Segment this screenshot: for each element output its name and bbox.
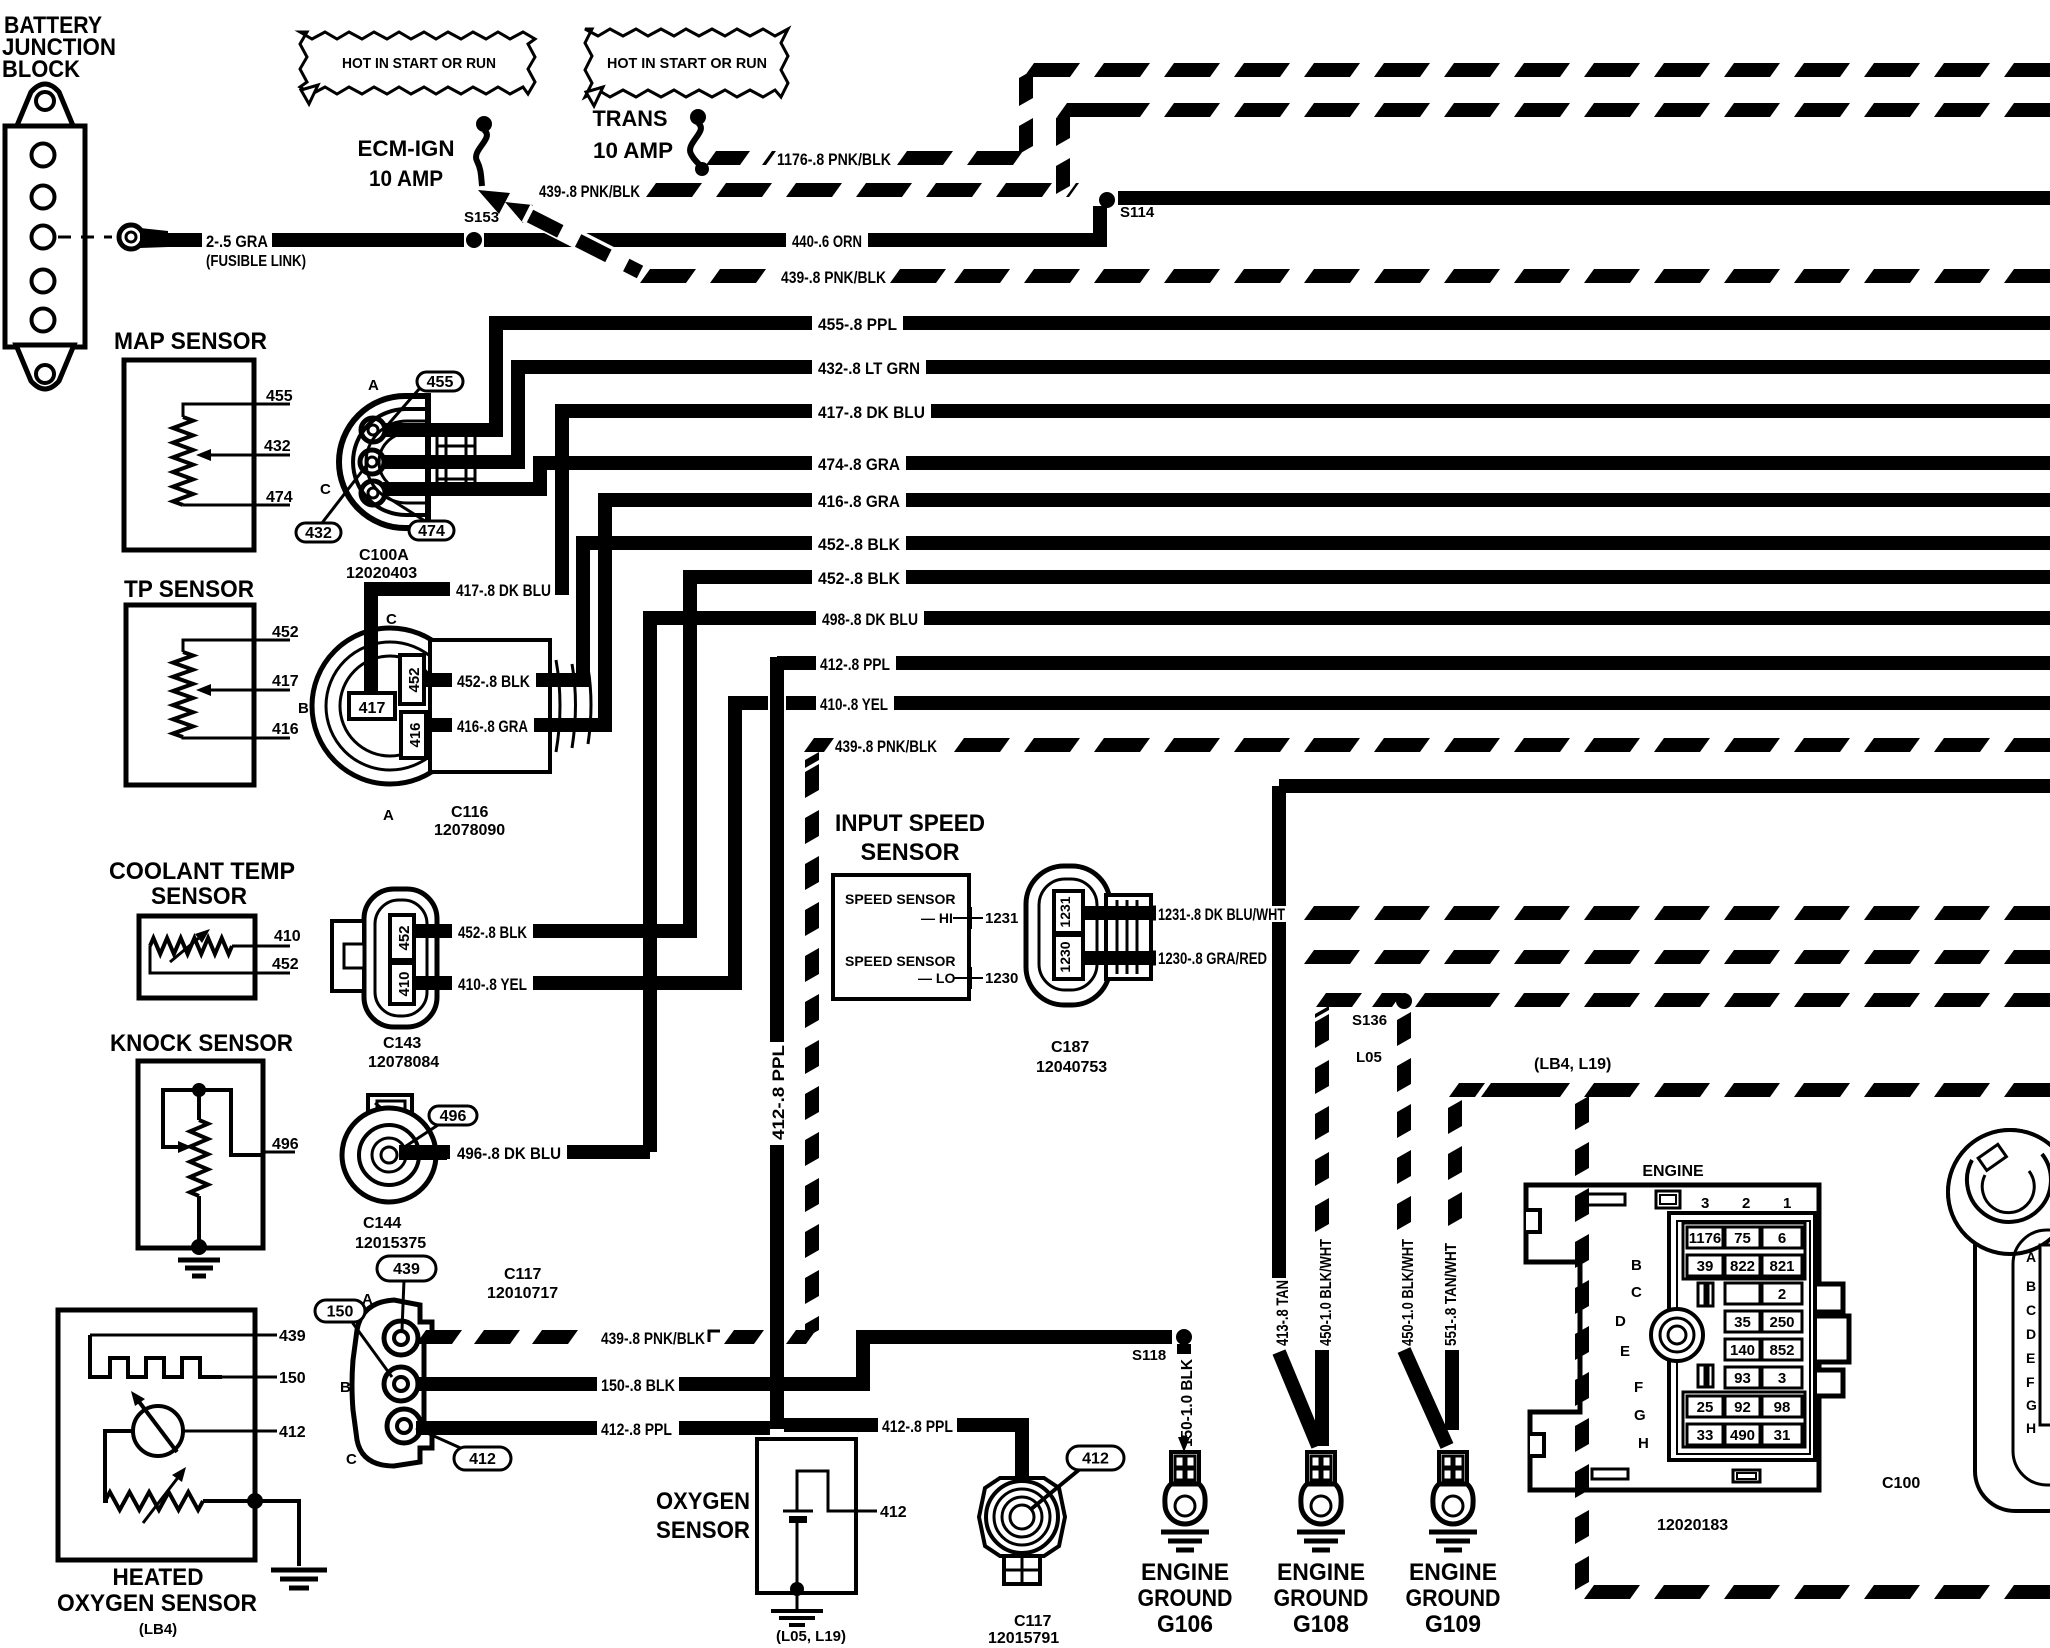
callout 474 oval <box>387 497 425 521</box>
svg-text:12078090: 12078090 <box>434 822 505 839</box>
engine pin row 3 <box>1725 1283 1760 1304</box>
wire 440 ORN from S153 <box>484 233 786 247</box>
svg-text:417-.8 DK BLU: 417-.8 DK BLU <box>818 403 925 422</box>
wire 452-.8 BLK second mid <box>533 924 643 938</box>
svg-text:1231: 1231 <box>985 910 1018 927</box>
coolant sensor box <box>139 916 255 998</box>
wire 412-.8 PPL tee to O2 connector <box>784 1418 878 1432</box>
wire 150-.8 BLK mid <box>679 1377 770 1391</box>
wire 413-.8 TAN horizontal <box>1279 779 2050 793</box>
heated O2 resistor <box>105 1492 203 1510</box>
engine key rect upper <box>1698 1283 1705 1306</box>
svg-text:452-.8 BLK: 452-.8 BLK <box>818 535 901 554</box>
svg-text:852: 852 <box>1769 1342 1794 1359</box>
battery block hole 3 <box>32 226 55 249</box>
banner HOT IN START OR RUN right <box>585 29 788 97</box>
callout 150 oval <box>352 1322 392 1377</box>
svg-text:S153: S153 <box>464 209 499 226</box>
TP lead 416 <box>183 737 290 738</box>
svg-text:250: 250 <box>1769 1314 1794 1331</box>
svg-text:25: 25 <box>1697 1399 1714 1416</box>
svg-text:B: B <box>298 700 309 717</box>
svg-text:SENSOR: SENSOR <box>656 1517 750 1544</box>
svg-text:440-.6 ORN: 440-.6 ORN <box>792 232 862 251</box>
fuse TRANS <box>690 109 706 125</box>
knock bottom node <box>191 1239 207 1255</box>
input speed box <box>833 875 969 999</box>
wire 496 to riser <box>567 1145 650 1159</box>
svg-text:410: 410 <box>396 971 413 996</box>
wire 498-.8 DK BLU past 452 riser <box>697 611 816 625</box>
svg-text:ECM-IGN: ECM-IGN <box>358 136 455 161</box>
wire 450 BLK/WHT second diagonal to G109 <box>1404 1350 1447 1446</box>
svg-text:KNOCK SENSOR: KNOCK SENSOR <box>110 1030 293 1057</box>
svg-text:A: A <box>368 377 379 394</box>
wire 412-.8 PPL main corner <box>777 656 816 670</box>
svg-text:432: 432 <box>264 438 291 455</box>
knock sensor box <box>138 1061 263 1248</box>
svg-text:(LB4, L19): (LB4, L19) <box>1534 1056 1611 1073</box>
wire 410-.8 YEL mid <box>533 976 643 990</box>
wire 150-.8 BLK jog <box>784 1337 1172 1384</box>
svg-text:H: H <box>2026 1420 2036 1436</box>
C117 pin C <box>387 1409 421 1443</box>
wire 439-.8 PNK/BLK upper dashed <box>646 183 702 197</box>
svg-text:412: 412 <box>279 1424 306 1441</box>
svg-text:412: 412 <box>469 1451 496 1468</box>
wire 452-.8 BLK riser <box>536 543 598 680</box>
svg-text:474: 474 <box>266 489 293 506</box>
wire 439-.8 PNK/BLK vertical to C117 <box>805 764 819 798</box>
arrow at ECM-IGN fuse <box>478 190 510 214</box>
svg-text:496-.8 DK BLU: 496-.8 DK BLU <box>457 1144 561 1163</box>
svg-text:455-.8 PPL: 455-.8 PPL <box>818 315 897 334</box>
junction dot on box edge <box>247 1493 263 1509</box>
svg-text:452: 452 <box>396 925 413 950</box>
svg-text:F: F <box>2026 1374 2035 1390</box>
svg-text:39: 39 <box>1697 1258 1714 1275</box>
connector C187 body <box>1026 866 1110 1005</box>
wire 150-.8 BLK from C117 pin B <box>416 1377 597 1391</box>
dashed link to ring terminal <box>58 236 112 239</box>
svg-text:416-.8 GRA: 416-.8 GRA <box>457 717 528 736</box>
engine connector body <box>1526 1185 1849 1490</box>
svg-text:C117: C117 <box>1014 1613 1051 1630</box>
svg-text:452: 452 <box>272 956 299 973</box>
svg-text:410: 410 <box>274 928 301 945</box>
C100A pin C <box>361 481 385 505</box>
oxygen sensor box <box>757 1439 856 1593</box>
wire 439-.8 PNK/BLK lower dashed <box>640 269 696 283</box>
svg-text:412-.8 PPL: 412-.8 PPL <box>601 1420 672 1439</box>
svg-text:452-.8 BLK: 452-.8 BLK <box>818 569 901 588</box>
svg-text:412-.8 PPL: 412-.8 PPL <box>769 1045 788 1140</box>
svg-text:416-.8 GRA: 416-.8 GRA <box>818 492 900 511</box>
svg-text:10 AMP: 10 AMP <box>593 138 673 163</box>
O2 bottom dot <box>790 1582 804 1596</box>
banner tail right <box>586 87 603 106</box>
svg-text:1176: 1176 <box>1689 1230 1722 1247</box>
C117 pin A <box>384 1321 418 1355</box>
TP sensor box <box>126 605 254 785</box>
C100A pin A <box>361 418 385 442</box>
MAP resistor <box>173 417 193 505</box>
svg-text:A: A <box>2026 1249 2036 1265</box>
engine ground G109 <box>1439 1452 1467 1484</box>
svg-text:GROUND: GROUND <box>1274 1585 1369 1612</box>
svg-text:417: 417 <box>359 700 386 717</box>
wire 455-.8 PPL to right edge <box>903 316 2050 330</box>
svg-text:B: B <box>340 1379 351 1396</box>
svg-text:412-.8 PPL: 412-.8 PPL <box>882 1417 953 1436</box>
MAP lead 455 <box>183 404 290 417</box>
svg-text:A: A <box>362 1291 373 1308</box>
engine pin row 6 <box>1725 1367 1760 1388</box>
wire 474-.8 GRA mid <box>569 456 812 470</box>
svg-text:(LB4): (LB4) <box>139 1621 177 1638</box>
wire 2-.5 GRA to splice S153 <box>272 233 464 247</box>
svg-text:410-.8 YEL: 410-.8 YEL <box>458 975 527 994</box>
callout 432 oval <box>322 466 366 523</box>
svg-text:C116: C116 <box>451 804 488 821</box>
engine connector top ear notch <box>1526 1210 1540 1232</box>
connector C143 body <box>364 889 437 1027</box>
ring terminal at fusible link <box>119 225 143 249</box>
svg-text:1176-.8 PNK/BLK: 1176-.8 PNK/BLK <box>777 150 892 169</box>
wire splice branch corner at 450 <box>1316 993 1362 1007</box>
wire 439-.8 PNK/BLK lower to right edge <box>2004 269 2050 283</box>
connector C144 body <box>342 1108 436 1202</box>
svg-text:150: 150 <box>327 1304 354 1321</box>
wire 410-.8 YEL riser <box>657 703 768 983</box>
connector C116 circles <box>312 628 468 784</box>
svg-text:31: 31 <box>1774 1427 1791 1444</box>
engine connector top slot 2 <box>1656 1191 1680 1208</box>
svg-text:416: 416 <box>407 722 424 747</box>
engine key rect lower <box>1698 1365 1705 1387</box>
wire 452-.8 BLK to right edge <box>906 536 2050 550</box>
svg-text:2-.5 GRA: 2-.5 GRA <box>206 232 268 251</box>
wire 1176-.8 PNK/BLK dashed <box>897 151 953 165</box>
svg-text:(FUSIBLE LINK): (FUSIBLE LINK) <box>206 253 306 270</box>
arrow into G106 <box>1178 1437 1190 1452</box>
engine ground G106 <box>1171 1452 1199 1484</box>
svg-text:452: 452 <box>406 667 423 692</box>
knock top node <box>192 1083 206 1097</box>
C116 right box <box>430 640 550 772</box>
wire 439-.8 PNK/BLK lower diagonal casing <box>526 213 642 272</box>
wire 1176-.8 PNK/BLK from TRANS fuse <box>706 151 750 165</box>
svg-text:12010717: 12010717 <box>487 1285 558 1302</box>
svg-text:452-.8 BLK: 452-.8 BLK <box>458 923 528 942</box>
wire 1231-.8 DK BLU/WHT dashed <box>2004 906 2050 920</box>
svg-text:12015791: 12015791 <box>988 1630 1059 1647</box>
svg-text:150: 150 <box>279 1370 306 1387</box>
wire 452-.8 BLK second to right edge <box>906 570 2050 584</box>
battery block bottom ear <box>16 345 74 389</box>
engine pin group lower <box>1683 1392 1805 1447</box>
flag mark <box>709 1331 720 1342</box>
wire 1230 stub at C187 <box>1083 951 1156 966</box>
wire 432-.8 LT GRN to right edge <box>926 360 2050 374</box>
svg-text:496: 496 <box>272 1136 299 1153</box>
svg-text:821: 821 <box>1769 1258 1794 1275</box>
svg-text:439-.8 PNK/BLK: 439-.8 PNK/BLK <box>539 182 641 201</box>
svg-text:D: D <box>1615 1313 1626 1330</box>
engine connector top slot <box>1585 1194 1625 1205</box>
wire 452-.8 BLK mid <box>612 536 812 550</box>
engine pin row 2 <box>1687 1255 1723 1276</box>
svg-text:G: G <box>1634 1407 1646 1424</box>
svg-text:1230-.8 GRA/RED: 1230-.8 GRA/RED <box>1158 949 1267 968</box>
C187 pin 1230 box <box>1054 935 1083 979</box>
TP lead 452 <box>183 640 290 652</box>
wire 417-.8 DK BLU riser <box>562 411 812 595</box>
wire 417-.8 DK BLU pin lead at TP <box>371 589 450 695</box>
svg-text:432: 432 <box>305 525 332 542</box>
heated O2 412 lead <box>183 1430 277 1433</box>
svg-text:413-.8 TAN: 413-.8 TAN <box>1273 1280 1292 1346</box>
wire 2-.5 GRA fusible link from battery block <box>148 233 202 247</box>
svg-text:C187: C187 <box>1051 1039 1089 1056</box>
splice S136 <box>1396 993 1412 1009</box>
heated O2 ground <box>271 1568 327 1573</box>
wire 440 ORN right of S114 <box>1118 191 2050 205</box>
right connector pin sliver <box>2040 1245 2050 1425</box>
wire 410-.8 YEL stub at C143 <box>414 976 452 990</box>
svg-text:(L05, L19): (L05, L19) <box>776 1628 846 1645</box>
battery block body <box>5 126 85 347</box>
right connector head <box>1948 1130 2050 1254</box>
wire dashed at engine connector bottom <box>2004 1585 2050 1599</box>
engine boss <box>1651 1309 1703 1361</box>
svg-text:C144: C144 <box>363 1215 401 1232</box>
svg-text:412: 412 <box>1082 1451 1109 1468</box>
C187 pin stub 1230 <box>1083 951 1156 965</box>
wire 412-.8 PPL to right edge <box>896 656 2050 670</box>
engine bottom slot <box>1592 1469 1628 1479</box>
svg-text:93: 93 <box>1734 1370 1751 1387</box>
connector C144 tab <box>368 1095 412 1127</box>
wire 150-1.0 BLK to G106 <box>1177 1344 1191 1354</box>
svg-text:1230: 1230 <box>1057 941 1073 972</box>
svg-text:33: 33 <box>1697 1427 1714 1444</box>
callout 455 oval <box>385 388 420 428</box>
C143 pin 452 box <box>390 915 414 960</box>
svg-text:TP SENSOR: TP SENSOR <box>124 576 254 603</box>
svg-text:— HI: — HI <box>921 910 953 926</box>
engine pin group upper <box>1683 1223 1805 1279</box>
wire 498-.8 DK BLU to right edge <box>924 611 2050 625</box>
svg-text:TRANS: TRANS <box>593 106 668 131</box>
wire 439-.8 PNK/BLK from C117 pin A <box>416 1330 462 1344</box>
knock left branch <box>163 1090 199 1147</box>
C100A key bars upper <box>436 434 439 458</box>
knock resistor <box>197 1090 201 1120</box>
callout 412 oval at O2 connector <box>1030 1469 1080 1510</box>
svg-text:150-1.0 BLK: 150-1.0 BLK <box>1179 1359 1196 1447</box>
svg-text:10 AMP: 10 AMP <box>369 166 443 191</box>
banner HOT IN START OR RUN left <box>300 32 535 94</box>
heated O2 ground wire <box>255 1501 299 1566</box>
banner tail left <box>301 85 318 104</box>
battery block top ear <box>16 84 74 128</box>
wire 413-.8 TAN vertical a <box>1272 786 1286 906</box>
svg-text:455: 455 <box>427 374 454 391</box>
svg-text:C: C <box>1631 1284 1642 1301</box>
svg-text:C: C <box>320 481 331 498</box>
wire 439-.8 PNK/BLK lower diagonal <box>530 216 640 272</box>
svg-text:G108: G108 <box>1293 1611 1349 1638</box>
svg-text:474: 474 <box>418 523 445 540</box>
svg-text:439: 439 <box>279 1328 306 1345</box>
knock ground <box>178 1258 220 1263</box>
O2 ground wire <box>796 1593 799 1609</box>
C116 box arcs <box>556 660 560 752</box>
wire 551 TAN/WHT solid to G109 <box>1445 1350 1459 1430</box>
wire 498-.8 DK BLU riser <box>650 618 683 1152</box>
right connector body <box>1975 1205 2050 1511</box>
svg-text:490: 490 <box>1730 1427 1755 1444</box>
LO tick <box>953 977 983 979</box>
knock right branch <box>199 1090 263 1155</box>
svg-text:OXYGEN SENSOR: OXYGEN SENSOR <box>57 1590 257 1617</box>
battery block hole 2 <box>32 186 55 209</box>
wire 496-.8 DK BLU stub at C144 <box>399 1145 450 1159</box>
C144 pin stub <box>399 1146 447 1160</box>
svg-text:35: 35 <box>1734 1314 1751 1331</box>
heated O2 box <box>58 1310 255 1560</box>
wire 439-.8 PNK/BLK mid to right edge <box>2004 738 2050 752</box>
wire dashed at engine connector vertical <box>1575 1096 1589 1130</box>
TP resistor <box>173 652 193 737</box>
coolant resistor <box>150 938 232 954</box>
heated O2 heater element <box>90 1335 222 1377</box>
svg-text:12015375: 12015375 <box>355 1235 426 1252</box>
svg-text:150-.8 BLK: 150-.8 BLK <box>601 1376 676 1395</box>
wire LB4 L19 dashed corner <box>1449 1083 1485 1097</box>
fuse ECM-IGN <box>476 116 492 132</box>
connector C117 O2 rings <box>979 1478 1065 1556</box>
svg-text:G106: G106 <box>1157 1611 1213 1638</box>
wire 452-.8 BLK second riser <box>657 577 812 931</box>
wire 439-.8 PNK/BLK mid corner <box>804 738 834 752</box>
splice S118 <box>1176 1329 1192 1345</box>
svg-text:S114: S114 <box>1120 204 1155 221</box>
battery block hole 4 <box>32 270 55 293</box>
O2 cell wire <box>796 1523 799 1589</box>
coolant lead 452 <box>150 946 290 973</box>
C100A key bars lower <box>436 467 439 491</box>
battery block hole 1 <box>32 144 55 167</box>
svg-text:416: 416 <box>272 721 299 738</box>
coolant arrow <box>170 932 206 962</box>
svg-text:S136: S136 <box>1352 1012 1387 1029</box>
O2 ground <box>771 1609 823 1613</box>
svg-text:2: 2 <box>1778 1286 1786 1303</box>
wire 439-.8 PNK/BLK upper to right edge <box>2004 103 2050 117</box>
heated O2 439 lead <box>90 1334 277 1337</box>
svg-text:B: B <box>2026 1278 2036 1294</box>
C117 pin B <box>384 1367 418 1401</box>
svg-text:75: 75 <box>1734 1230 1751 1247</box>
wire 412-.8 PPL vertical lower <box>770 1145 784 1429</box>
svg-text:F: F <box>1634 1379 1643 1396</box>
coolant lead 410 <box>232 945 290 948</box>
wire dashed through S136 to right edge <box>2004 993 2050 1007</box>
svg-text:SENSOR: SENSOR <box>861 839 960 866</box>
wire 410-.8 YEL to right edge <box>894 696 2050 710</box>
wire 413-.8 TAN vertical b <box>1272 922 1286 1278</box>
engine ground G108 <box>1307 1452 1335 1484</box>
svg-text:G: G <box>2026 1397 2037 1413</box>
wire 1176-.8 PNK/BLK riser <box>1019 70 1033 106</box>
svg-text:455: 455 <box>266 388 293 405</box>
C187 right attachment <box>1106 895 1151 979</box>
svg-text:450-1.0 BLK/WHT: 450-1.0 BLK/WHT <box>1318 1239 1335 1346</box>
C187 pin stub 1231 <box>1083 906 1156 920</box>
svg-text:12040753: 12040753 <box>1036 1059 1107 1076</box>
battery block hole 5 <box>32 309 55 332</box>
connector C100A shell <box>339 396 428 528</box>
wire 439 dash past 412 vertical <box>786 1330 816 1344</box>
callout 439 oval top <box>402 1280 404 1330</box>
svg-text:1230: 1230 <box>985 970 1018 987</box>
wire 474-.8 GRA to right edge <box>906 456 2050 470</box>
wire 412-.8 PPL to O2 connector <box>957 1425 1022 1484</box>
svg-text:ENGINE: ENGINE <box>1277 1559 1365 1586</box>
svg-text:432-.8 LT GRN: 432-.8 LT GRN <box>818 359 920 378</box>
wire 1230-.8 GRA/RED dashed <box>2004 950 2050 964</box>
svg-text:439: 439 <box>393 1261 420 1278</box>
knock 496 lead <box>263 1151 295 1154</box>
wire 450 BLK/WHT second dashed vertical <box>1397 1012 1411 1046</box>
C143 pin 410 box <box>390 963 414 1004</box>
svg-text:SPEED SENSOR: SPEED SENSOR <box>845 891 955 907</box>
svg-text:L05: L05 <box>1356 1049 1382 1066</box>
svg-text:HEATED: HEATED <box>113 1564 204 1591</box>
svg-text:417-.8 DK BLU: 417-.8 DK BLU <box>456 581 551 600</box>
svg-text:BLOCK: BLOCK <box>2 56 81 83</box>
engine pin row 8 <box>1687 1424 1723 1445</box>
svg-text:822: 822 <box>1730 1258 1755 1275</box>
wire 1231 stub at C187 <box>1083 906 1156 921</box>
splice S114 <box>1099 192 1115 208</box>
C187 pin 1231 box <box>1054 891 1083 933</box>
svg-text:C100: C100 <box>1882 1475 1920 1492</box>
svg-text:GROUND: GROUND <box>1138 1585 1233 1612</box>
MAP lead 474 <box>183 504 290 507</box>
svg-text:C: C <box>386 611 397 628</box>
wire 417-.8 DK BLU to right edge <box>931 404 2050 418</box>
svg-text:D: D <box>2026 1326 2036 1342</box>
svg-text:OXYGEN: OXYGEN <box>656 1488 750 1515</box>
heated O2 variable circle <box>133 1406 183 1456</box>
svg-text:412-.8 PPL: 412-.8 PPL <box>820 655 890 674</box>
C100A pin B <box>360 450 384 474</box>
C143 left tab <box>332 921 364 991</box>
wire 1176-.8 PNK/BLK top to right edge <box>2004 63 2050 77</box>
svg-text:1231: 1231 <box>1057 896 1073 927</box>
svg-text:92: 92 <box>1734 1399 1751 1416</box>
wire 439-.8 PNK/BLK upper riser <box>1056 110 1070 146</box>
engine bottom slot 2 <box>1733 1470 1760 1482</box>
svg-text:417: 417 <box>272 673 299 690</box>
right connector head inner <box>1967 1154 2050 1222</box>
svg-text:HOT IN START OR RUN: HOT IN START OR RUN <box>342 55 496 72</box>
svg-text:3: 3 <box>1778 1370 1786 1387</box>
wire 413-.8 TAN to G108 <box>1279 1352 1318 1446</box>
